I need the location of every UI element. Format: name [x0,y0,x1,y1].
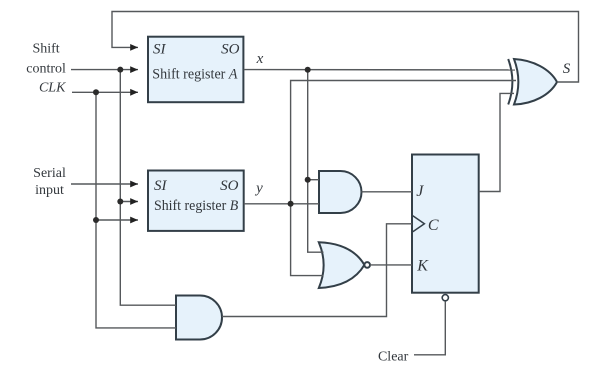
wire: clear input [414,301,445,355]
wire: CLK branch into B [96,92,138,220]
wire: shift control branch into B [120,70,138,202]
node: y line tee [288,201,294,207]
wire: x branch into and gate [308,179,319,181]
and gate xy [319,171,362,213]
shift register A box [148,37,243,103]
wire: y branch down to nor [291,204,324,276]
svg-text:C: C [428,217,439,234]
node: x line tee [305,67,311,73]
svg-text:Shift register A: Shift register A [152,66,238,82]
node: x tee to and gate [305,177,311,183]
svg-text:control: control [26,62,66,77]
svg-text:SI: SI [154,178,168,194]
svg-text:S: S [563,61,571,77]
node: CLK tee at B [93,217,99,223]
wire: CLK vertical down to bottom and [96,220,176,328]
svg-text:y: y [254,181,263,197]
node: CLK tee at A [93,89,99,95]
svg-text:SO: SO [221,41,240,57]
svg-text:Shift register B: Shift register B [154,198,238,214]
svg-text:CLK: CLK [39,80,66,95]
wire: shift control vertical down to bottom and [120,202,176,306]
wire: serial input into B [71,183,138,185]
node: shift control tee at B [117,199,123,205]
svg-text:SI: SI [153,41,167,57]
shift register B box [148,171,244,231]
wire: shift control into A [71,69,138,71]
wire: nor output to K [370,264,412,266]
wire: y branch up to xor input 2 [291,81,516,204]
svg-text:J: J [416,183,424,200]
wire: CLK into A [72,91,138,93]
wire: bottom and output up to C [222,224,412,317]
svg-text:Clear: Clear [378,349,409,364]
svg-text:x: x [256,51,264,67]
svg-text:Shift: Shift [32,42,59,57]
wire: x from A to xor input 1 [244,69,515,71]
nor gate [319,242,370,288]
wire: S feedback from xor output to SI of A [112,12,579,83]
pin C clock triangle [413,216,425,232]
wire: and output to J [361,191,412,193]
clear bubble [442,295,448,301]
svg-text:input: input [35,183,64,198]
wire: Q output feedback up to xor input 3 [479,93,514,191]
svg-text:K: K [416,258,429,275]
svg-text:Serial: Serial [33,166,66,181]
wire: y from B to and gate [244,203,319,205]
xor gate [508,59,557,105]
node: shift control tee at A [117,67,123,73]
wire: x vertical branch down to nor [308,70,324,253]
JK flip-flop box [412,155,479,301]
bottom and gate [176,296,222,340]
svg-text:SO: SO [220,178,239,194]
